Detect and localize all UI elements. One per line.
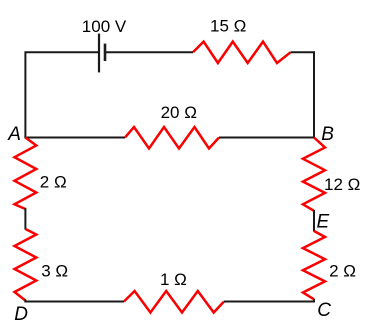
battery 100 V xyxy=(99,34,105,73)
svg-text:20 Ω: 20 Ω xyxy=(161,103,197,122)
label 3 ohm xyxy=(41,261,68,280)
svg-text:B: B xyxy=(321,124,334,145)
svg-text:E: E xyxy=(317,212,330,233)
label 2 ohm left xyxy=(40,173,67,192)
resistor 1 ohm (bottom) xyxy=(124,291,224,313)
node B xyxy=(321,124,334,145)
wire A to resistor 20 xyxy=(24,137,125,139)
wire resistor 20 to B xyxy=(219,137,315,139)
label 20 ohm xyxy=(161,103,197,122)
svg-text:2 Ω: 2 Ω xyxy=(329,262,356,281)
wire left middle (between 2 ohm and 3 ohm) xyxy=(24,208,26,230)
node E xyxy=(317,212,330,233)
svg-text:2 Ω: 2 Ω xyxy=(40,173,67,192)
label 12 ohm xyxy=(324,175,360,194)
resistor 2 ohm (right lower, E to C) xyxy=(303,231,325,299)
svg-text:C: C xyxy=(317,300,331,321)
wire D to resistor 1 xyxy=(25,300,124,302)
label 1 ohm xyxy=(160,270,187,289)
resistor 2 ohm (left upper, A to wire) xyxy=(15,138,37,210)
svg-text:100 V: 100 V xyxy=(82,17,127,36)
node D xyxy=(14,304,28,325)
label 15 ohm xyxy=(210,17,246,36)
resistor 12 ohm (right upper, B to E) xyxy=(303,138,325,211)
wire top-left (corner to battery) xyxy=(25,52,98,137)
node A xyxy=(7,124,21,145)
svg-text:A: A xyxy=(7,124,21,145)
node C xyxy=(317,300,331,321)
resistor 15 ohm xyxy=(193,42,291,63)
resistor 3 ohm (left lower, wire to D) xyxy=(15,229,37,301)
resistor 20 ohm xyxy=(125,127,219,149)
wire E (between 12 ohm and 2 ohm) xyxy=(313,210,315,232)
svg-text:D: D xyxy=(14,304,28,325)
label 100 V xyxy=(82,17,127,36)
wire top-right (resistor 15 to corner, down to B) xyxy=(291,52,315,137)
svg-text:12 Ω: 12 Ω xyxy=(324,175,360,194)
wire battery to resistor 15 xyxy=(106,51,193,53)
wire resistor 1 to C xyxy=(224,299,314,302)
label 2 ohm right xyxy=(329,262,356,281)
svg-text:3 Ω: 3 Ω xyxy=(41,261,68,280)
svg-text:15 Ω: 15 Ω xyxy=(210,17,246,36)
svg-text:1 Ω: 1 Ω xyxy=(160,270,187,289)
